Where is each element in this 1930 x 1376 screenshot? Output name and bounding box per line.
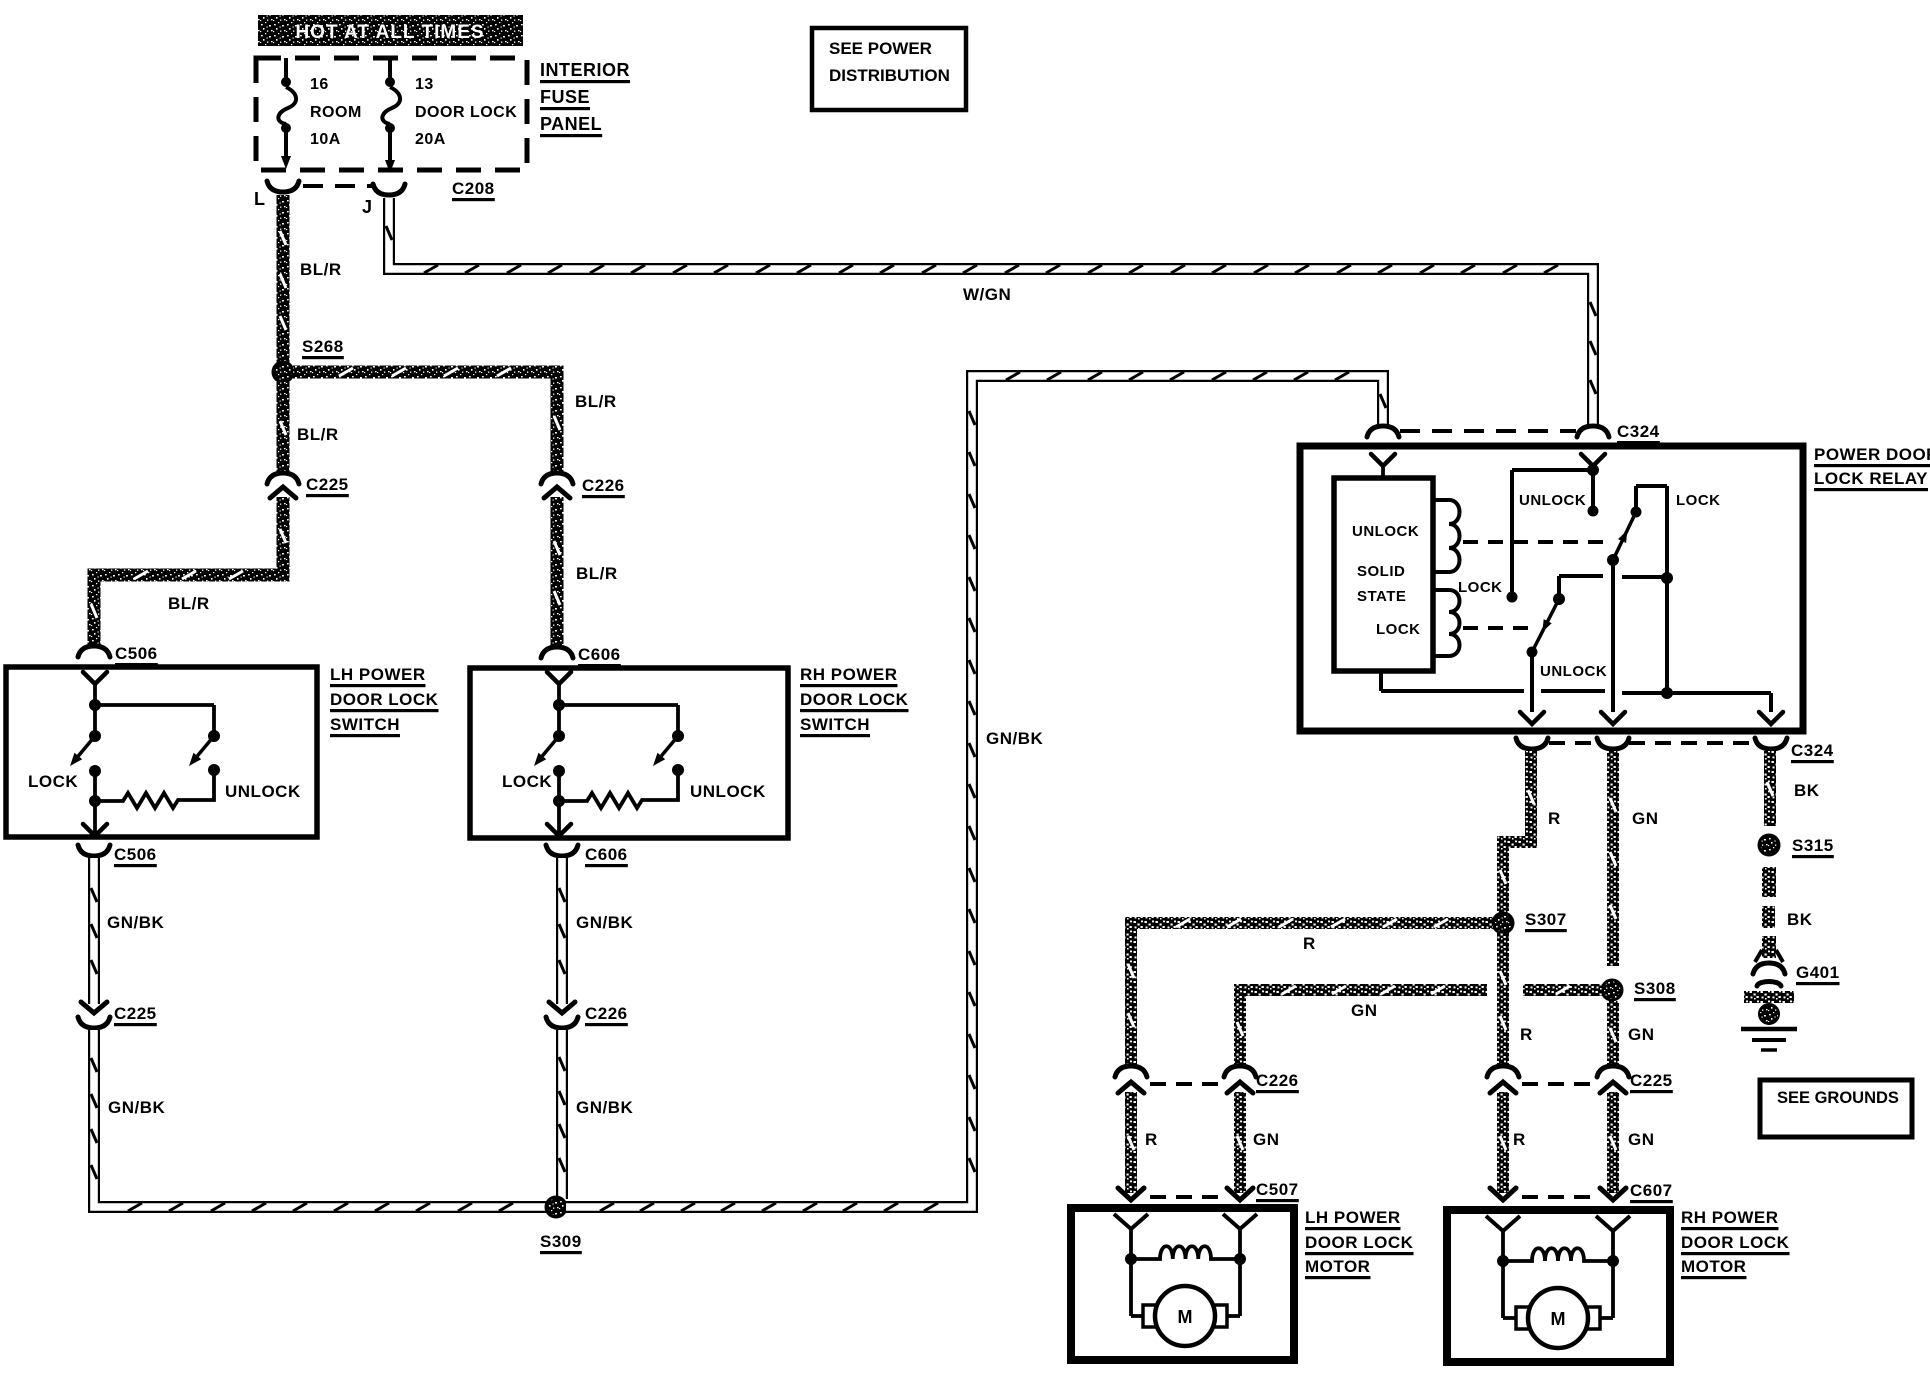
relay lock switch (arm + rest contact): [1607, 486, 1667, 566]
connector C607 arrows: [1490, 1188, 1626, 1200]
wire GN S308 down to RH C225: [1610, 1001, 1616, 1068]
svg-text:R: R: [1548, 809, 1561, 828]
svg-text:C225: C225: [114, 1004, 157, 1023]
svg-text:S315: S315: [1792, 836, 1834, 855]
svg-text:S307: S307: [1525, 910, 1567, 929]
wire R C226 to C507: [1128, 1092, 1134, 1193]
svg-text:GN: GN: [1351, 1001, 1378, 1020]
interior fuse panel dashed box: [256, 58, 527, 170]
connector C225 upper: [267, 473, 299, 498]
unlock switch arm: [661, 736, 678, 756]
svg-text:C606: C606: [578, 645, 621, 664]
connector C506 upper: [78, 646, 110, 657]
svg-text:ROOM: ROOM: [310, 104, 362, 121]
LH power door lock motor armature M: [1143, 1286, 1227, 1346]
wire R relay to S307: [1500, 751, 1534, 913]
svg-text:S268: S268: [302, 337, 344, 356]
svg-text:MOTOR: MOTOR: [1305, 1257, 1370, 1276]
svg-text:W/GN: W/GN: [963, 285, 1011, 304]
connector C324 top (two cavities): [1367, 426, 1609, 437]
svg-text:LOCK: LOCK: [1376, 621, 1421, 638]
svg-text:INTERIOR: INTERIOR: [540, 60, 630, 80]
connector C225 dashed line: [1522, 1082, 1595, 1086]
power door lock relay box: [1300, 446, 1803, 731]
svg-text:C225: C225: [1630, 1071, 1673, 1090]
splice S268: [273, 362, 293, 382]
lock contact: [89, 765, 101, 777]
svg-text:C506: C506: [114, 845, 157, 864]
wire GN/BK C506 to C225: [91, 858, 97, 1004]
relay ground bus vertical: [1661, 486, 1673, 699]
svg-text:M: M: [1551, 1309, 1566, 1329]
wire GN C225 to C607: [1610, 1092, 1616, 1193]
svg-text:UNLOCK: UNLOCK: [1519, 492, 1586, 509]
RH power door lock motor internal circuit: [1497, 1231, 1619, 1318]
svg-text:RH POWER: RH POWER: [800, 665, 898, 684]
svg-text:DOOR LOCK: DOOR LOCK: [415, 104, 517, 121]
wire BL/R S268 down to C225: [280, 382, 286, 474]
unlock arm pivot: [672, 730, 684, 742]
unlock coil actuating dashed link: [1463, 540, 1608, 544]
svg-text:GN: GN: [1253, 1130, 1280, 1149]
svg-text:SWITCH: SWITCH: [330, 715, 400, 734]
unlock contact: [208, 764, 220, 776]
connector C226 (LH motor R wire): [1115, 1066, 1147, 1093]
svg-text:HOT AT ALL TIMES: HOT AT ALL TIMES: [295, 22, 484, 43]
svg-text:LOCK: LOCK: [28, 772, 78, 791]
svg-text:GN/BK: GN/BK: [576, 913, 634, 932]
switch input arrow: [83, 672, 107, 684]
svg-text:R: R: [1520, 1025, 1533, 1044]
svg-text:C226: C226: [585, 1004, 628, 1023]
svg-text:GN/BK: GN/BK: [986, 729, 1044, 748]
wire GN relay to S308: [1610, 751, 1616, 966]
lock-side B+ contact: [1507, 592, 1518, 603]
svg-text:LH POWER: LH POWER: [1305, 1208, 1401, 1227]
LH switch internals: [70, 672, 220, 836]
lock contact: [553, 765, 565, 777]
connector C225 (RH motor GN wire): [1597, 1066, 1629, 1093]
lock switch arm: [542, 736, 559, 756]
svg-text:C607: C607: [1630, 1181, 1673, 1200]
svg-text:LH POWER: LH POWER: [330, 665, 426, 684]
lock arm pivot: [89, 730, 101, 742]
svg-text:PANEL: PANEL: [540, 114, 602, 134]
svg-text:GN/BK: GN/BK: [576, 1098, 634, 1117]
splice S315: [1759, 835, 1779, 855]
svg-text:16: 16: [310, 76, 329, 93]
RH switch internals: [534, 672, 684, 836]
lock arm pivot: [553, 730, 565, 742]
svg-text:S308: S308: [1634, 979, 1676, 998]
svg-text:L: L: [254, 189, 266, 209]
junction node: [89, 699, 101, 711]
svg-text:GN/BK: GN/BK: [107, 913, 165, 932]
svg-text:SWITCH: SWITCH: [800, 715, 870, 734]
svg-text:GN: GN: [1632, 809, 1659, 828]
svg-text:LOCK: LOCK: [502, 772, 552, 791]
switch output wire: [93, 801, 97, 835]
ground G401: [1741, 963, 1797, 1050]
svg-text:R: R: [1513, 1130, 1526, 1149]
RH power door lock switch box: [470, 668, 788, 838]
svg-text:DOOR LOCK: DOOR LOCK: [1305, 1233, 1414, 1252]
RH power door lock motor entry funnels: [1486, 1216, 1630, 1231]
connector C607 dashed line: [1522, 1195, 1595, 1199]
wire GN/BK C225 to S309: [91, 1030, 547, 1211]
svg-text:R: R: [1303, 934, 1316, 953]
resistor: [95, 770, 214, 808]
wire GN/BK C606 to C226: [559, 858, 565, 1004]
svg-text:UNLOCK: UNLOCK: [1540, 663, 1607, 680]
relay entry arrow (lock feed): [1371, 454, 1395, 478]
connector C226 dashed line: [1150, 1082, 1222, 1086]
splice S309: [546, 1197, 566, 1217]
svg-text:C225: C225: [306, 475, 349, 494]
header bar HOT AT ALL TIMES: [258, 15, 523, 46]
relay R output line: [1520, 652, 1544, 724]
wire W/GN fuse J to relay C324: [386, 198, 1596, 427]
LH power door lock switch box: [6, 667, 317, 837]
unlock-side B+ contact: [1588, 506, 1599, 517]
svg-text:C226: C226: [1256, 1071, 1299, 1090]
connector C324 bottom dashed line: [1549, 741, 1597, 745]
wire BL/R C225 to C506: [91, 497, 286, 648]
wire GN/BK C226 to S309: [559, 1030, 565, 1199]
svg-text:SEE GROUNDS: SEE GROUNDS: [1777, 1089, 1899, 1107]
relay unlock coil: [1433, 500, 1460, 572]
svg-text:S309: S309: [540, 1232, 582, 1251]
RH power door lock motor armature M: [1516, 1288, 1600, 1348]
svg-text:G401: G401: [1796, 963, 1840, 982]
svg-text:BL/R: BL/R: [300, 260, 342, 279]
connector C606 upper: [541, 647, 573, 658]
svg-text:SEE POWER: SEE POWER: [829, 39, 932, 58]
svg-text:BK: BK: [1787, 910, 1813, 929]
internal wire to unlock arm: [559, 703, 678, 707]
svg-text:C324: C324: [1617, 422, 1660, 441]
wire GN S308 to LH C226: [1237, 986, 1487, 1068]
connector C506 lower: [78, 845, 110, 856]
svg-text:C507: C507: [1256, 1180, 1299, 1199]
wire GN C226 to C507: [1237, 1092, 1243, 1193]
connector C606 lower: [546, 845, 578, 856]
lock coil actuating dashed link: [1463, 626, 1538, 630]
svg-text:C506: C506: [115, 644, 158, 663]
svg-text:10A: 10A: [310, 131, 341, 148]
svg-text:MOTOR: MOTOR: [1681, 1257, 1746, 1276]
internal wire to unlock arm: [95, 703, 214, 707]
wire BL/R C226 to C606: [554, 497, 560, 649]
svg-text:C324: C324: [1791, 741, 1834, 760]
note box SEE POWER DISTRIBUTION: [812, 28, 966, 110]
connector C507 arrows: [1118, 1188, 1253, 1200]
connector C324 top dashed line: [1400, 429, 1576, 433]
svg-text:SOLID: SOLID: [1357, 563, 1405, 580]
wire BL/R S268 to C226: [293, 368, 560, 474]
switch input arrow: [547, 672, 571, 684]
svg-text:20A: 20A: [415, 131, 446, 148]
junction node: [553, 699, 565, 711]
connector C225 (RH motor R wire): [1487, 1066, 1519, 1093]
wire R S307 to LH C226: [1128, 919, 1493, 1068]
wire BK relay to S315: [1767, 751, 1773, 826]
relay lock coil: [1433, 590, 1460, 656]
unlock arm pivot: [208, 730, 220, 742]
svg-text:GN/BK: GN/BK: [108, 1098, 166, 1117]
relay entry arrow (B+ feed): [1581, 454, 1605, 472]
svg-text:DISTRIBUTION: DISTRIBUTION: [829, 66, 950, 85]
svg-text:LOCK: LOCK: [1458, 579, 1503, 596]
connector C208 dashed line: [303, 184, 375, 188]
wire GN/BK S309 up to relay C324: [566, 372, 1386, 1211]
svg-text:BL/R: BL/R: [168, 594, 210, 613]
svg-text:UNLOCK: UNLOCK: [1352, 523, 1419, 540]
relay GN output line: [1601, 560, 1625, 724]
svg-text:POWER DOOR: POWER DOOR: [1814, 445, 1930, 464]
wire R S307 down to RH C225: [1500, 933, 1506, 1068]
note box SEE GROUNDS: [1760, 1080, 1912, 1137]
svg-text:J: J: [362, 197, 373, 217]
connector pin J of C208: [373, 184, 405, 195]
LH power door lock motor box: [1071, 1208, 1294, 1360]
svg-text:UNLOCK: UNLOCK: [690, 782, 766, 801]
RH power door lock motor box: [1447, 1210, 1670, 1362]
wire R C225 to C607: [1500, 1092, 1506, 1193]
fuse F13 DOOR LOCK 20A: [382, 58, 400, 173]
svg-text:LOCK: LOCK: [1676, 492, 1721, 509]
wire BK S315 to G401 (broken band): [1755, 867, 1783, 962]
svg-text:M: M: [1178, 1307, 1193, 1327]
svg-text:RH POWER: RH POWER: [1681, 1208, 1779, 1227]
svg-text:BL/R: BL/R: [576, 564, 618, 583]
svg-text:DOOR LOCK: DOOR LOCK: [1681, 1233, 1790, 1252]
svg-text:LOCK RELAY: LOCK RELAY: [1814, 469, 1928, 488]
wire GN S308 west segment: [1523, 986, 1602, 994]
svg-text:R: R: [1145, 1130, 1158, 1149]
LH power door lock motor internal circuit: [1125, 1229, 1246, 1316]
splice S307: [1493, 913, 1513, 933]
LH power door lock motor entry funnels: [1114, 1214, 1257, 1229]
svg-text:GN: GN: [1628, 1025, 1655, 1044]
svg-text:DOOR LOCK: DOOR LOCK: [330, 690, 439, 709]
unlock contact: [672, 764, 684, 776]
relay ground bottom rail: [1381, 671, 1783, 724]
connector C225 lower: [78, 1002, 110, 1028]
connector C226 lower: [546, 1002, 578, 1028]
svg-text:BL/R: BL/R: [575, 392, 617, 411]
relay solid state module box: [1334, 478, 1433, 671]
svg-text:BL/R: BL/R: [297, 425, 339, 444]
wire BL/R fuse L down to S268: [280, 195, 286, 366]
connector C324 bottom (three cavities): [1516, 738, 1787, 749]
connector C226 (LH motor GN wire): [1224, 1066, 1256, 1093]
fuse F16 ROOM 10A: [278, 58, 296, 169]
svg-text:C606: C606: [585, 845, 628, 864]
svg-text:DOOR LOCK: DOOR LOCK: [800, 690, 909, 709]
switch output wire: [557, 801, 561, 835]
svg-text:UNLOCK: UNLOCK: [225, 782, 301, 801]
svg-text:C208: C208: [452, 179, 495, 198]
connector pin L of C208: [267, 181, 299, 192]
svg-text:13: 13: [415, 76, 434, 93]
svg-text:STATE: STATE: [1357, 588, 1406, 605]
relay B+ node and branches: [1507, 464, 1600, 603]
unlock switch arm: [197, 736, 214, 756]
svg-text:GN: GN: [1628, 1130, 1655, 1149]
svg-text:C226: C226: [582, 476, 625, 495]
splice S308: [1602, 980, 1622, 1000]
connector C507 dashed line: [1150, 1195, 1222, 1199]
svg-text:BK: BK: [1794, 781, 1820, 800]
relay unlock switch (arm + rest contact): [1527, 576, 1668, 658]
resistor: [559, 770, 678, 808]
lock switch arm: [78, 736, 95, 756]
svg-text:FUSE: FUSE: [540, 87, 590, 107]
connector C226 upper: [541, 473, 573, 498]
